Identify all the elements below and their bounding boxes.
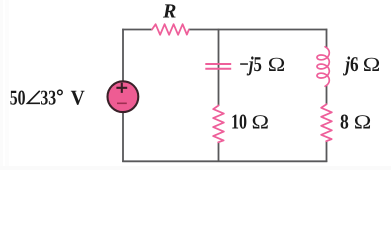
wire right vertical top	[326, 29, 328, 48]
wire right vertical middle	[326, 86, 328, 105]
plus sign inside source	[116, 83, 127, 93]
resistor 8 ohm (right branch, vertical zigzag)	[321, 104, 332, 141]
svg-text:R: R	[162, 0, 176, 22]
svg-text:10: 10	[231, 109, 247, 133]
wire top horizontal right of R	[189, 29, 328, 31]
wire middle branch lower	[218, 143, 220, 163]
minus sign inside source	[117, 102, 127, 104]
wire left vertical lower	[122, 113, 124, 163]
svg-text:Ω: Ω	[268, 54, 286, 76]
svg-text:Ω: Ω	[252, 111, 270, 133]
angle symbol	[28, 91, 40, 104]
svg-text:8: 8	[340, 109, 349, 133]
svg-text:33: 33	[40, 85, 56, 109]
wire middle branch upper (through capacitor)	[218, 29, 220, 106]
resistor R (top, horizontal zigzag)	[152, 24, 189, 35]
svg-text:−j5: −j5	[239, 52, 262, 76]
wire right vertical bottom	[326, 142, 328, 163]
wire bottom horizontal	[122, 160, 327, 162]
wire left vertical upper	[122, 29, 124, 82]
inductor j6 (right branch, coil)	[317, 47, 329, 86]
svg-text:V: V	[71, 85, 85, 109]
svg-text:50: 50	[10, 85, 26, 109]
capacitor -j5 (middle branch, two plates)	[205, 63, 231, 65]
degree mark	[58, 90, 63, 95]
page edge shading bottom	[0, 166, 391, 170]
wire top-left horizontal	[122, 29, 152, 31]
svg-text:Ω: Ω	[354, 111, 372, 133]
svg-text:Ω: Ω	[363, 54, 381, 76]
resistor 10 ohm (middle branch, vertical zigzag)	[213, 106, 224, 143]
svg-text:j6: j6	[343, 52, 359, 76]
page edge shading left	[0, 0, 3, 170]
voltage source circle	[108, 81, 139, 112]
